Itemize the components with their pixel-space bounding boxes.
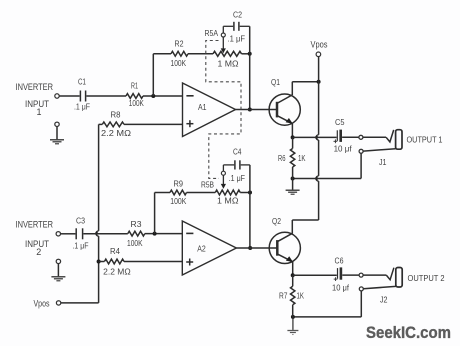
svg-text:R1: R1 <box>131 81 138 90</box>
svg-text:C3: C3 <box>76 217 85 226</box>
svg-text:INVERTER: INVERTER <box>16 82 54 92</box>
svg-text:Q2: Q2 <box>272 217 281 226</box>
svg-text:R4: R4 <box>110 247 121 256</box>
svg-text:Vpos: Vpos <box>311 40 328 50</box>
svg-text:C1: C1 <box>78 78 86 87</box>
svg-text:INVERTER: INVERTER <box>16 219 54 229</box>
svg-text:A2: A2 <box>197 245 206 254</box>
svg-text:Q1: Q1 <box>271 78 280 87</box>
svg-text:OUTPUT 2: OUTPUT 2 <box>408 274 446 283</box>
svg-text:R2: R2 <box>175 39 184 48</box>
svg-text:1: 1 <box>37 107 42 117</box>
svg-text:.1 μF: .1 μF <box>228 34 246 43</box>
svg-text:2: 2 <box>36 247 41 257</box>
svg-text:R5A: R5A <box>205 29 219 38</box>
svg-text:OUTPUT 1: OUTPUT 1 <box>407 135 443 144</box>
svg-text:J1: J1 <box>379 158 387 167</box>
svg-text:C5: C5 <box>335 118 345 127</box>
svg-text:Vpos: Vpos <box>34 298 50 308</box>
svg-text:C2: C2 <box>233 10 242 19</box>
svg-text:SeekIC.com: SeekIC.com <box>366 323 451 342</box>
svg-text:C6: C6 <box>335 257 344 266</box>
svg-text:100K: 100K <box>127 239 143 248</box>
svg-text:10 μf: 10 μf <box>334 145 353 154</box>
svg-text:100K: 100K <box>170 197 187 206</box>
svg-text:.1 μF: .1 μF <box>73 242 89 251</box>
svg-text:R7: R7 <box>279 292 288 301</box>
svg-text:C4: C4 <box>233 147 242 156</box>
svg-text:.1 μF: .1 μF <box>74 103 90 112</box>
svg-text:R5B: R5B <box>201 180 214 189</box>
svg-text:1K: 1K <box>298 154 306 163</box>
svg-text:2.2 MΩ: 2.2 MΩ <box>101 129 131 138</box>
svg-text:1 MΩ: 1 MΩ <box>218 60 239 69</box>
svg-text:A1: A1 <box>198 103 207 112</box>
svg-text:R3: R3 <box>131 220 143 229</box>
svg-text:10 μf: 10 μf <box>332 284 350 293</box>
svg-text:R9: R9 <box>174 180 184 189</box>
svg-text:1 MΩ: 1 MΩ <box>217 197 239 206</box>
svg-text:.1 μF: .1 μF <box>229 174 245 183</box>
svg-text:100K: 100K <box>171 59 187 68</box>
svg-text:2.2 MΩ: 2.2 MΩ <box>103 267 131 276</box>
svg-text:R6: R6 <box>278 154 286 163</box>
svg-text:100K: 100K <box>129 99 145 108</box>
svg-text:R8: R8 <box>111 111 122 120</box>
svg-text:J2: J2 <box>380 295 388 304</box>
svg-text:1K: 1K <box>297 292 305 301</box>
